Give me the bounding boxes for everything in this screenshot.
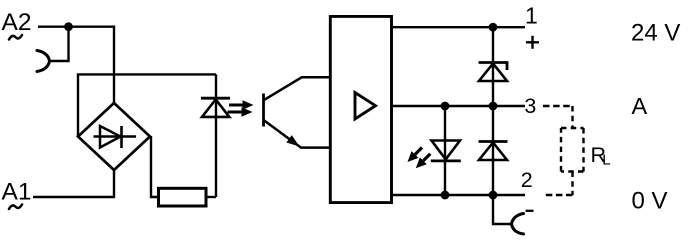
wire resistor to LED branch [206,196,216,198]
dashed load wire to 2 [544,172,573,196]
wire LED branch vertical [215,74,217,197]
svg-text:0 V: 0 V [632,188,668,215]
svg-text:L: L [602,152,610,169]
junction node 3a [441,102,450,111]
wire diode branch [492,106,494,195]
svg-text:2: 2 [521,168,533,192]
junction node 2b [489,191,498,200]
optocoupler light arrows [228,100,254,117]
diode D3 [479,142,508,161]
bridge diode symbol [94,126,137,148]
junction node 2a [441,191,450,200]
test contact minus [512,214,524,235]
label minus polarity [526,210,534,212]
junction node 3b [489,102,498,111]
label plus polarity [526,36,539,49]
wire zener branch [492,27,494,106]
junction A2 node [64,22,73,31]
terminal label A2 [2,9,32,40]
LED emission arrows [408,148,431,169]
zener diode Z1 [479,63,508,82]
wire A1 to bridge bottom [33,169,114,197]
wire indicator LED branch [444,106,446,195]
resistor R1 [159,188,207,206]
wire bridge right to resistor [151,136,159,197]
wire output 1 [391,26,525,28]
svg-text:A: A [632,93,648,119]
dashed load wire from 3 [543,106,573,128]
wire A2 down to bridge top [113,27,115,103]
wire output 3 [391,105,525,107]
label RL [591,143,611,169]
terminal label A1 [2,179,32,210]
svg-text:1: 1 [525,3,538,29]
svg-text:24 V: 24 V [631,20,680,47]
test contact A2 [37,51,50,72]
indicator LED D2 [431,141,461,161]
junction node 1 [489,23,498,32]
svg-text:A2: A2 [2,9,32,36]
load resistor RL [561,128,584,172]
wire bridge left rail [78,74,216,137]
wire A2 horizontal [38,26,115,28]
bridge rectifier B1 [78,103,150,170]
svg-text:A1: A1 [2,179,32,206]
optocoupler LED D1 [201,98,230,117]
wire output 2 [391,194,525,196]
optocoupler phototransistor Q1 [264,77,331,147]
amplifier triangle symbol [355,93,376,120]
amplifier box U1 [330,16,391,202]
svg-text:3: 3 [524,94,536,118]
wire junction to test contact [50,27,69,61]
wire to minus test contact [493,195,511,224]
